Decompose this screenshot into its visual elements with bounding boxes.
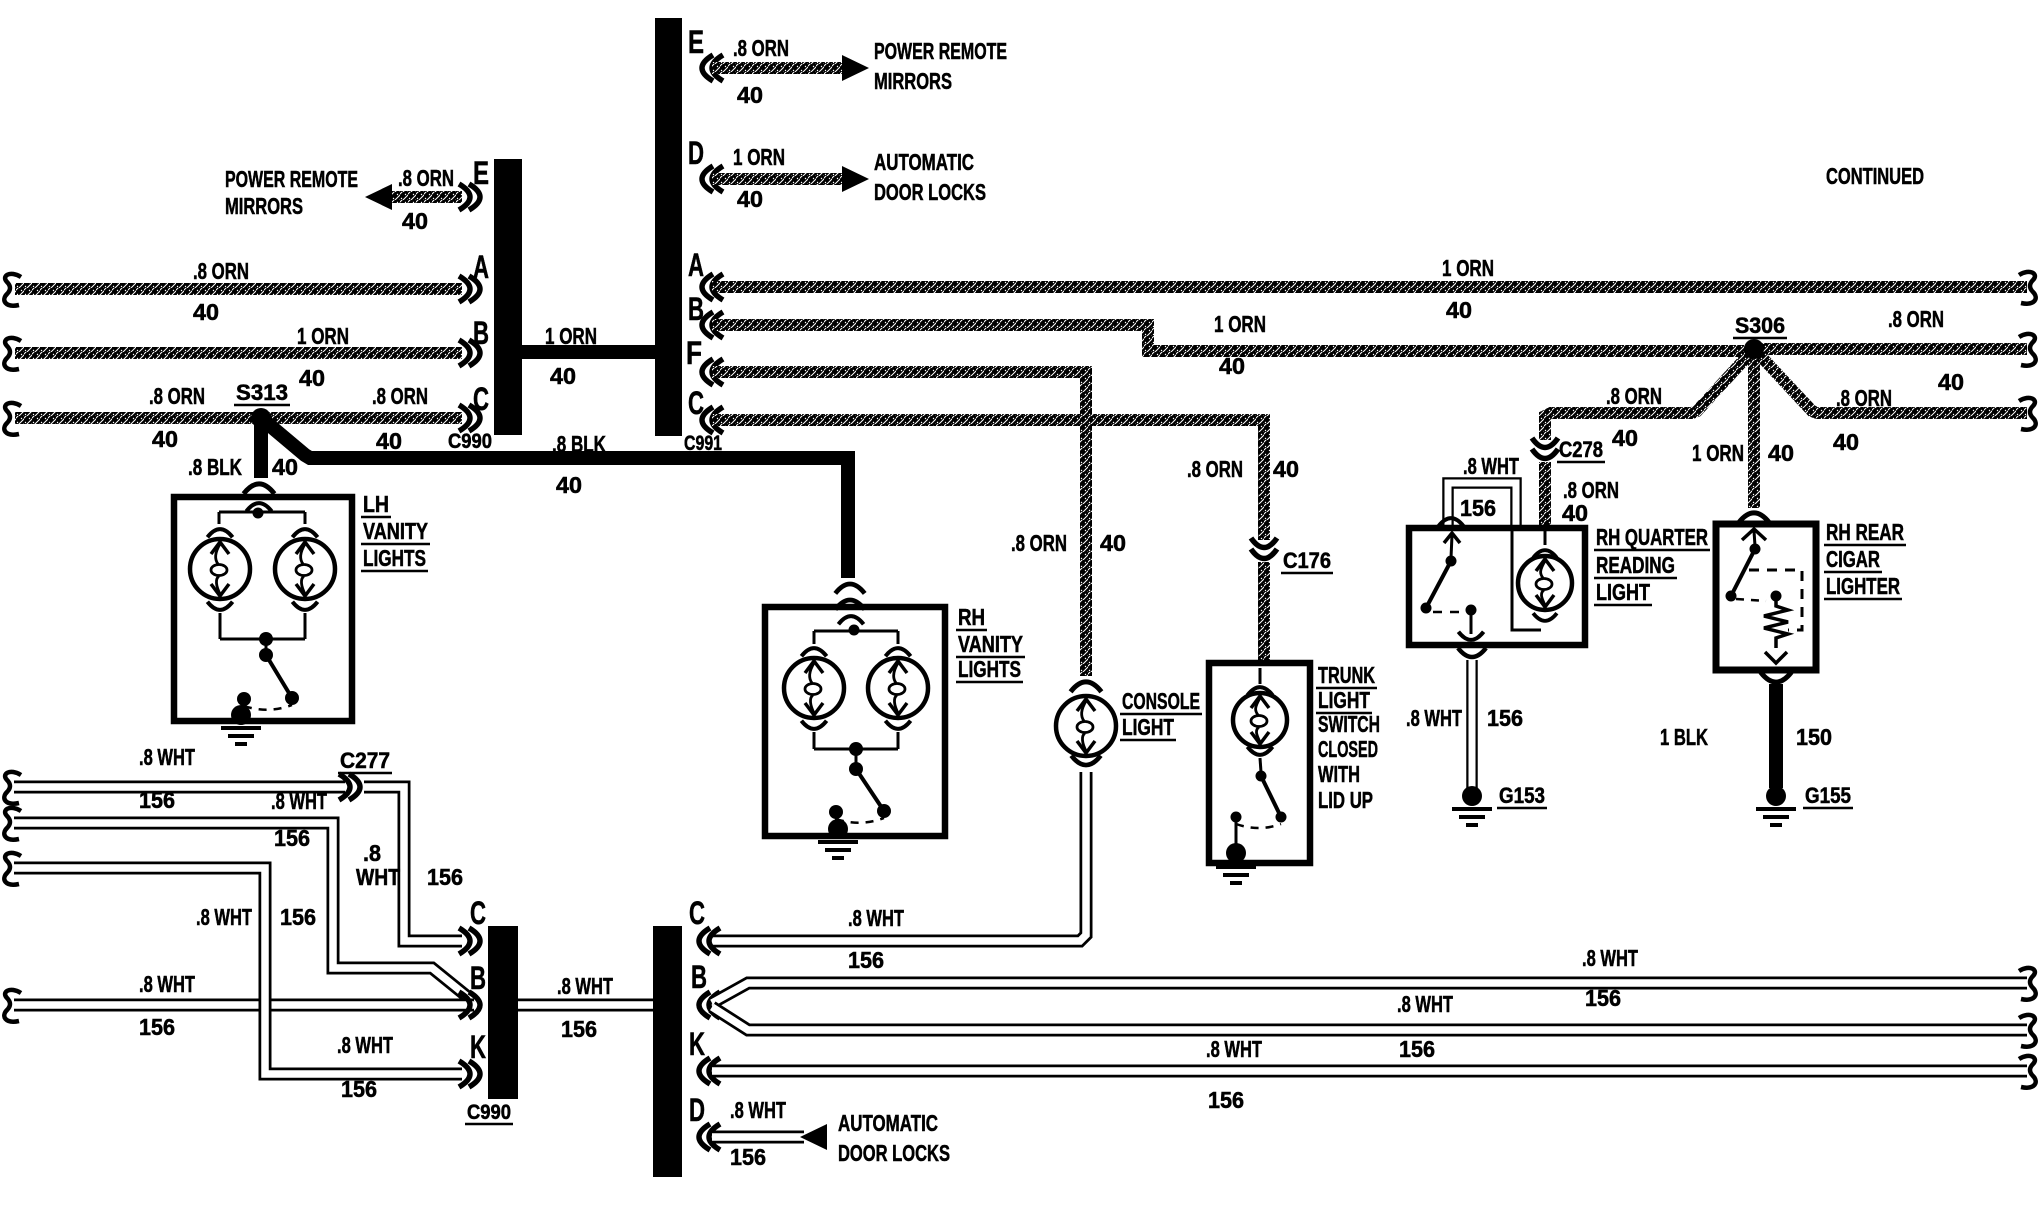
svg-text:AUTOMATIC: AUTOMATIC	[838, 1110, 938, 1136]
svg-text:156: 156	[1585, 985, 1621, 1011]
svg-text:1 ORN: 1 ORN	[1214, 311, 1266, 337]
wire .8 WHT 156 from C277 to C990 pin C	[364, 787, 462, 941]
LH vanity ground lead	[242, 699, 244, 712]
svg-text:CIGAR: CIGAR	[1826, 546, 1880, 572]
svg-text:.8 ORN: .8 ORN	[1187, 456, 1243, 482]
svg-text:40: 40	[376, 428, 402, 454]
svg-text:.8 WHT: .8 WHT	[1206, 1036, 1262, 1062]
svg-text:LIGHTER: LIGHTER	[1826, 573, 1900, 599]
svg-text:40: 40	[272, 454, 298, 480]
svg-text:RH REAR: RH REAR	[1826, 519, 1904, 545]
connector bar C990 (top)	[494, 159, 522, 435]
connector C176	[1251, 538, 1277, 559]
wire .8 WHT 156 upper branch from C991 pin B to right edge	[712, 983, 2027, 1003]
wire .8 ORN 40 to power remote mirrors (left)	[389, 191, 462, 203]
svg-text:.8 WHT: .8 WHT	[139, 744, 195, 770]
cigar lighter switch contact	[1742, 529, 1766, 540]
svg-text:1 BLK: 1 BLK	[1660, 724, 1708, 750]
svg-text:40: 40	[1938, 369, 1964, 395]
svg-text:.8 ORN: .8 ORN	[1606, 383, 1662, 409]
wire .8 BLK 40 from S313 down to LH vanity lights	[254, 418, 268, 478]
svg-text:.8 WHT: .8 WHT	[196, 904, 252, 930]
svg-text:RH: RH	[958, 604, 985, 630]
reading lamp return wire inside box	[1512, 531, 1541, 630]
svg-text:.8 ORN: .8 ORN	[193, 258, 249, 284]
svg-text:40: 40	[402, 208, 428, 234]
console light lamp	[1056, 696, 1116, 756]
svg-text:156: 156	[848, 947, 884, 973]
svg-text:40: 40	[550, 363, 576, 389]
wire .8 ORN 40 branch from S306 down-right to right edge	[1754, 349, 2027, 413]
svg-text:156: 156	[730, 1144, 766, 1170]
svg-text:LIGHTS: LIGHTS	[958, 656, 1021, 682]
RH vanity lamp 1	[801, 648, 826, 656]
RH vanity feed junction	[838, 616, 863, 624]
svg-text:DOOR LOCKS: DOOR LOCKS	[838, 1140, 950, 1166]
svg-text:B: B	[470, 960, 486, 996]
svg-text:C176: C176	[1283, 548, 1331, 573]
RH vanity lamp return lines	[813, 732, 816, 749]
svg-text:156: 156	[274, 825, 310, 851]
svg-text:K: K	[689, 1026, 705, 1062]
wire .8 ORN 40 left of splice S313	[4, 403, 21, 435]
svg-text:40: 40	[1562, 500, 1588, 526]
svg-text:VANITY: VANITY	[363, 518, 428, 544]
wire .8 WHT 156 from left edge to C277	[4, 772, 21, 804]
svg-text:.8 WHT: .8 WHT	[1406, 705, 1462, 731]
connector C278	[1532, 438, 1558, 459]
svg-text:156: 156	[139, 787, 175, 813]
RH rear cigar lighter box	[1716, 524, 1816, 670]
svg-text:40: 40	[556, 472, 582, 498]
wire .8 ORN 40 to power remote mirrors (right)	[712, 62, 842, 74]
svg-text:1 ORN: 1 ORN	[1442, 255, 1494, 281]
wire 1 BLK 150 from cigar lighter to G155	[1769, 684, 1783, 788]
cigar lighter element dashed outline	[1749, 570, 1802, 630]
svg-text:156: 156	[1460, 495, 1496, 521]
wire 1 ORN 40 from C991 pin A to right edge	[712, 281, 2027, 293]
chevron above cigar lighter box	[1739, 513, 1770, 523]
wire .8 ORN 40 from S306 to right edge	[1754, 343, 2027, 355]
connector bar C991 (top)	[655, 18, 682, 436]
splice S313	[251, 408, 271, 428]
svg-text:LH: LH	[363, 491, 389, 517]
svg-text:E: E	[688, 24, 704, 60]
LH vanity lights box	[174, 497, 352, 721]
svg-text:VANITY: VANITY	[958, 631, 1023, 657]
ground symbol under trunk light box	[1216, 867, 1256, 883]
reading light switch output lead	[1470, 610, 1473, 634]
svg-text:40: 40	[1100, 530, 1126, 556]
svg-text:.8 ORN: .8 ORN	[398, 165, 454, 191]
wire .8 ORN 40 into C990 pin A	[4, 274, 21, 306]
chevron below cigar lighter box	[1761, 672, 1792, 682]
svg-text:LIGHTS: LIGHTS	[363, 545, 426, 571]
svg-text:CONTINUED: CONTINUED	[1826, 163, 1924, 189]
svg-text:C: C	[470, 895, 486, 931]
wire .8 BLK 40 from S313 to RH vanity lights	[261, 418, 848, 578]
svg-text:156: 156	[427, 864, 463, 890]
svg-text:.8 WHT: .8 WHT	[848, 905, 904, 931]
svg-text:D: D	[689, 1092, 705, 1128]
svg-text:.8 ORN: .8 ORN	[372, 383, 428, 409]
svg-text:.8 WHT: .8 WHT	[1397, 991, 1453, 1017]
wire 1 ORN 40 from S306 down to cigar lighter	[1748, 349, 1760, 508]
svg-text:K: K	[470, 1029, 486, 1065]
svg-text:156: 156	[1487, 705, 1523, 731]
wire .8 ORN 40 from S313 to C990 pin C	[261, 412, 462, 424]
svg-text:1 ORN: 1 ORN	[545, 323, 597, 349]
svg-text:C278: C278	[1559, 437, 1603, 462]
reading light switch	[1438, 518, 1463, 526]
wire 1 ORN 40 between C990 pin B and C991 pin F	[520, 345, 657, 359]
svg-text:.8 WHT: .8 WHT	[557, 973, 613, 999]
svg-text:40: 40	[737, 186, 763, 212]
svg-text:WITH: WITH	[1318, 761, 1360, 787]
ground symbol under LH vanity box	[221, 728, 261, 744]
svg-text:MIRRORS: MIRRORS	[225, 193, 303, 219]
RH vanity lamp 2	[885, 648, 910, 656]
svg-text:B: B	[691, 959, 707, 995]
svg-text:.8 BLK: .8 BLK	[188, 454, 242, 480]
wire .8 ORN 40 from C278 into reading lamp	[1539, 462, 1551, 528]
splice S306	[1744, 339, 1764, 359]
svg-text:.8 BLK: .8 BLK	[552, 431, 606, 457]
svg-text:CONSOLE: CONSOLE	[1122, 688, 1200, 714]
wire .8 WHT 156 from C991 pin K to right edge	[712, 1065, 2027, 1078]
svg-text:156: 156	[561, 1016, 597, 1042]
svg-text:1 ORN: 1 ORN	[297, 323, 349, 349]
svg-text:40: 40	[152, 426, 178, 452]
wire .8 WHT 156 second from left edge to C990 pin B	[4, 808, 21, 840]
connector bar C991 (bottom)	[653, 926, 682, 1177]
svg-text:156: 156	[280, 904, 316, 930]
LH vanity lamp 1	[207, 529, 232, 537]
wire .8 WHT 156 lower branch from C991 pin B to right edge	[712, 1007, 2027, 1030]
svg-text:40: 40	[1833, 429, 1859, 455]
svg-text:TRUNK: TRUNK	[1318, 662, 1375, 688]
wire .8 WHT 156 from C991 pin D to automatic door locks	[712, 1131, 804, 1144]
svg-text:150: 150	[1796, 724, 1832, 750]
trunk lamp	[1259, 668, 1262, 684]
RH quarter reading light box	[1409, 528, 1585, 645]
wire .8 ORN 40 from C991 pin F down to console light	[712, 372, 1086, 676]
svg-text:.8 WHT: .8 WHT	[730, 1097, 786, 1123]
wire .8 WHT 156 from console light to C991 pin C (bottom)	[712, 772, 1086, 941]
chevron below reading light box	[1458, 648, 1486, 657]
LH vanity lamp 2	[292, 529, 317, 537]
svg-text:.8 WHT: .8 WHT	[1582, 945, 1638, 971]
connector C277	[339, 774, 360, 800]
svg-text:S306: S306	[1735, 313, 1785, 338]
svg-text:CLOSED: CLOSED	[1318, 736, 1378, 762]
wire .8 ORN from C176 to trunk light switch	[1258, 562, 1270, 666]
svg-text:156: 156	[139, 1014, 175, 1040]
svg-text:SWITCH: SWITCH	[1318, 711, 1380, 737]
trunk switch	[1260, 758, 1261, 772]
chevrons above RH vanity box	[835, 584, 864, 593]
ground G153	[1462, 786, 1482, 806]
svg-text:.8 ORN: .8 ORN	[733, 35, 789, 61]
svg-text:POWER REMOTE: POWER REMOTE	[225, 166, 358, 192]
LH vanity lamp return lines	[219, 613, 222, 639]
svg-text:G153: G153	[1499, 783, 1545, 808]
svg-text:S313: S313	[236, 380, 288, 405]
svg-text:LIGHT: LIGHT	[1318, 687, 1370, 713]
chevron below console light	[1071, 756, 1100, 765]
svg-text:40: 40	[1446, 297, 1472, 323]
svg-text:MIRRORS: MIRRORS	[874, 68, 952, 94]
svg-text:.8 ORN: .8 ORN	[1836, 385, 1892, 411]
LH vanity feed junction	[246, 503, 271, 511]
svg-text:40: 40	[737, 82, 763, 108]
svg-text:1 ORN: 1 ORN	[1692, 440, 1744, 466]
wire 1 ORN 40 to automatic door locks	[712, 173, 842, 185]
wire .8 ORN 40 branch from S306 down-left to C278	[1545, 349, 1754, 440]
RH vanity switch	[849, 742, 863, 756]
svg-text:A: A	[688, 247, 704, 283]
svg-text:C277: C277	[340, 748, 390, 773]
svg-text:156: 156	[341, 1076, 377, 1102]
svg-text:1 ORN: 1 ORN	[733, 144, 785, 170]
reading lamp	[1544, 531, 1547, 545]
svg-text:40: 40	[193, 299, 219, 325]
trunk switch ground lead	[1235, 817, 1238, 849]
svg-text:WHT: WHT	[356, 864, 400, 890]
svg-text:40: 40	[1273, 456, 1299, 482]
svg-text:RH QUARTER: RH QUARTER	[1596, 524, 1708, 550]
svg-text:LIGHT: LIGHT	[1122, 714, 1174, 740]
svg-text:DOOR LOCKS: DOOR LOCKS	[874, 179, 986, 205]
svg-text:.8 ORN: .8 ORN	[1888, 306, 1944, 332]
chevron at end of wire above console light	[1071, 682, 1102, 692]
wire .8 WHT 156 loop from switch to lamp	[1448, 483, 1516, 527]
svg-text:.8 WHT: .8 WHT	[337, 1032, 393, 1058]
trunk light switch box	[1209, 663, 1310, 863]
svg-text:G155: G155	[1805, 783, 1851, 808]
svg-text:.8 WHT: .8 WHT	[271, 788, 327, 814]
wire .8 WHT 156 from reading light to G153	[1466, 660, 1478, 788]
svg-text:.8 WHT: .8 WHT	[139, 971, 195, 997]
connector bar C990 (bottom)	[488, 926, 518, 1099]
ground G155	[1766, 786, 1786, 806]
wire 1 ORN 40 into C990 pin B	[4, 338, 21, 370]
svg-text:D: D	[688, 135, 704, 171]
svg-text:AUTOMATIC: AUTOMATIC	[874, 149, 974, 175]
RH vanity ground lead	[836, 812, 837, 825]
svg-text:40: 40	[299, 365, 325, 391]
svg-text:40: 40	[1768, 440, 1794, 466]
wire .8 ORN 40 from C991 pin C down to C176	[712, 420, 1264, 540]
svg-text:156: 156	[1208, 1087, 1244, 1113]
wire 1 ORN 40 from C991 pin B stepping down toward S306	[712, 325, 1750, 351]
ground symbol under RH vanity box	[818, 842, 858, 858]
svg-text:F: F	[686, 335, 702, 371]
wire .8 WHT 156 third from left edge to C990 pin K	[4, 853, 21, 885]
svg-text:C990: C990	[467, 1101, 511, 1124]
svg-text:.8 ORN: .8 ORN	[149, 383, 205, 409]
svg-text:.8 ORN: .8 ORN	[1011, 530, 1067, 556]
svg-text:156: 156	[1399, 1036, 1435, 1062]
svg-text:.8 WHT: .8 WHT	[1463, 453, 1519, 479]
svg-text:40: 40	[1219, 353, 1245, 379]
wire .8 WHT 156 between C990 and C991 (bottom)	[518, 999, 653, 1012]
svg-text:LIGHT: LIGHT	[1596, 579, 1650, 605]
svg-text:C990: C990	[448, 430, 492, 453]
svg-text:POWER REMOTE: POWER REMOTE	[874, 38, 1007, 64]
cigar lighter heating element	[1764, 596, 1788, 648]
svg-text:READING: READING	[1596, 552, 1675, 578]
svg-text:40: 40	[1612, 425, 1638, 451]
svg-text:C: C	[689, 895, 705, 931]
RH vanity lights box	[765, 607, 945, 836]
svg-text:LID UP: LID UP	[1318, 787, 1373, 813]
wire .8 WHT 156 from left edge into C990 pin B	[4, 990, 21, 1022]
LH vanity switch	[259, 632, 273, 646]
svg-text:.8: .8	[363, 840, 381, 866]
